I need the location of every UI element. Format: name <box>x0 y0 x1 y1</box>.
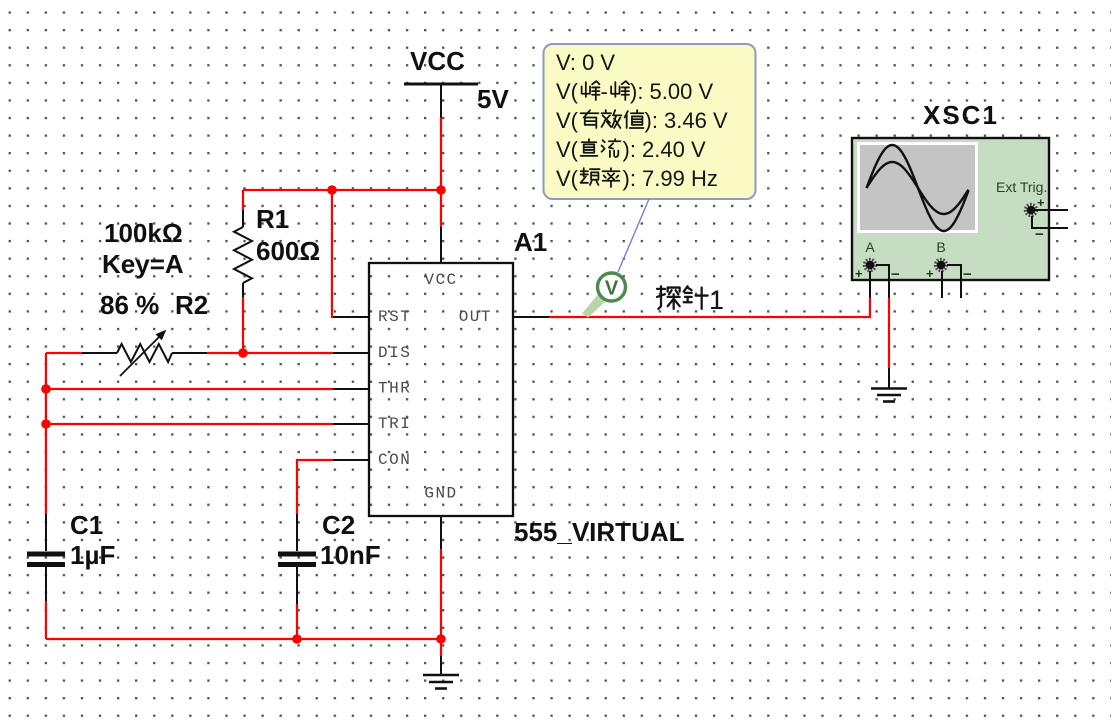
svg-text:): 7.99 Hz: ): 7.99 Hz <box>623 166 718 191</box>
wire top horizontal node to R1 <box>243 189 441 191</box>
wire VCC node down to U1 VCC pin <box>440 190 442 227</box>
node junction dots <box>327 185 337 195</box>
svg-text:-: - <box>601 79 608 104</box>
capacitor C1 <box>27 514 65 601</box>
ground under U1 <box>423 656 459 689</box>
wire R2 left to left rail <box>46 352 82 354</box>
wire B+ stub <box>941 271 943 298</box>
svg-text:V(: V( <box>556 79 579 104</box>
wire bottom ground rail <box>46 638 441 640</box>
svg-text:1: 1 <box>709 285 724 315</box>
pin stub TRI <box>333 423 369 425</box>
op-amp U1 555 timer body <box>369 263 513 516</box>
svg-text:): 2.40 V: ): 2.40 V <box>623 137 706 162</box>
wire THR horizontal <box>46 388 333 390</box>
wire scope A- to ground <box>888 298 890 369</box>
pin stub GND bottom <box>440 516 442 549</box>
pin stub DIS <box>333 352 369 354</box>
svg-text:A: A <box>865 239 875 255</box>
svg-text:Ext Trig.: Ext Trig. <box>996 179 1047 195</box>
svg-text:): 5.00 V: ): 5.00 V <box>630 79 713 104</box>
pin stub RST <box>333 316 369 318</box>
svg-text:C1: C1 <box>70 510 103 540</box>
measurement tooltip box <box>544 44 756 199</box>
pin stub THR <box>333 388 369 390</box>
svg-text:10nF: 10nF <box>320 540 381 570</box>
svg-text:R1: R1 <box>256 204 289 234</box>
svg-text:R2: R2 <box>175 290 208 320</box>
svg-text:+: + <box>926 266 934 281</box>
svg-text:+: + <box>1037 195 1045 210</box>
svg-text:5V: 5V <box>477 84 509 114</box>
wire left rail vertical <box>45 353 47 514</box>
wire A- L <box>876 265 889 298</box>
svg-text:555_VIRTUAL: 555_VIRTUAL <box>514 517 685 547</box>
svg-text:RST: RST <box>378 308 411 326</box>
svg-text:VCC: VCC <box>410 46 465 76</box>
ground at scope <box>871 389 907 402</box>
svg-text:OUT: OUT <box>459 308 492 326</box>
pin stub VCC top <box>440 227 442 263</box>
wire Ext Trig plus stub <box>1031 209 1068 211</box>
wire R1 bottom to DIS node <box>242 297 244 353</box>
svg-text:TRI: TRI <box>378 415 411 433</box>
wire B- stub <box>947 265 961 298</box>
terminal A <box>864 259 875 270</box>
svg-text:−: − <box>891 266 900 283</box>
wire TRI horizontal <box>46 423 333 425</box>
svg-text:86 %: 86 % <box>100 290 159 320</box>
wire C2 bottom lead red <box>296 604 298 639</box>
wire Ext Trig minus stub <box>1032 216 1068 228</box>
svg-text:THR: THR <box>378 380 411 398</box>
svg-text:+: + <box>855 266 863 281</box>
svg-text:V(: V( <box>556 166 579 191</box>
probe leader line <box>618 199 649 272</box>
svg-text:): 3.46 V: ): 3.46 V <box>645 108 728 133</box>
svg-text:A1: A1 <box>514 227 547 257</box>
svg-text:C2: C2 <box>322 510 355 540</box>
svg-text:Key=A: Key=A <box>102 249 184 279</box>
pin stub OUT <box>513 316 549 318</box>
svg-text:V: 0 V: V: 0 V <box>556 50 615 75</box>
svg-text:DIS: DIS <box>378 344 411 362</box>
probe 1 magnifier <box>582 273 626 318</box>
svg-text:CON: CON <box>378 451 411 469</box>
svg-text:XSC1: XSC1 <box>923 100 999 130</box>
wire R2 right lead red <box>207 352 243 354</box>
svg-text:600Ω: 600Ω <box>256 236 320 266</box>
svg-text:100kΩ: 100kΩ <box>104 218 183 248</box>
wire A- ground stub <box>888 368 890 388</box>
resistor R1 <box>234 210 252 297</box>
pin stub CON <box>333 459 369 461</box>
scope screen <box>857 142 978 233</box>
wire A+ down <box>869 271 871 298</box>
wire C1 bottom to ground rail <box>45 601 47 639</box>
wire R1 top lead <box>242 190 244 210</box>
potentiometer R2 <box>82 330 207 376</box>
svg-text:VCC: VCC <box>424 271 457 289</box>
wire CON to C2 <box>297 460 333 514</box>
wire VCC to node (vertical red) <box>440 118 442 191</box>
svg-text:−: − <box>963 266 972 283</box>
Ext Trig terminal <box>1025 204 1036 215</box>
power VCC symbol <box>404 46 478 118</box>
wire DIS node to U1 DIS pin <box>243 352 333 354</box>
capacitor C2 <box>278 514 316 604</box>
terminal B <box>935 259 946 270</box>
oscilloscope XSC1 body <box>852 138 1049 280</box>
svg-text:1µF: 1µF <box>70 540 115 570</box>
wire RST vertical <box>332 190 333 317</box>
svg-text:V(: V( <box>556 137 579 162</box>
wire U1 GND down <box>440 549 442 656</box>
svg-text:V: V <box>605 278 619 300</box>
svg-text:GND: GND <box>424 485 457 503</box>
svg-text:V(: V( <box>556 108 579 133</box>
wire OUT to scope A+ <box>549 298 870 318</box>
svg-text:B: B <box>936 239 945 255</box>
probe label tanzhen1 <box>657 285 724 315</box>
